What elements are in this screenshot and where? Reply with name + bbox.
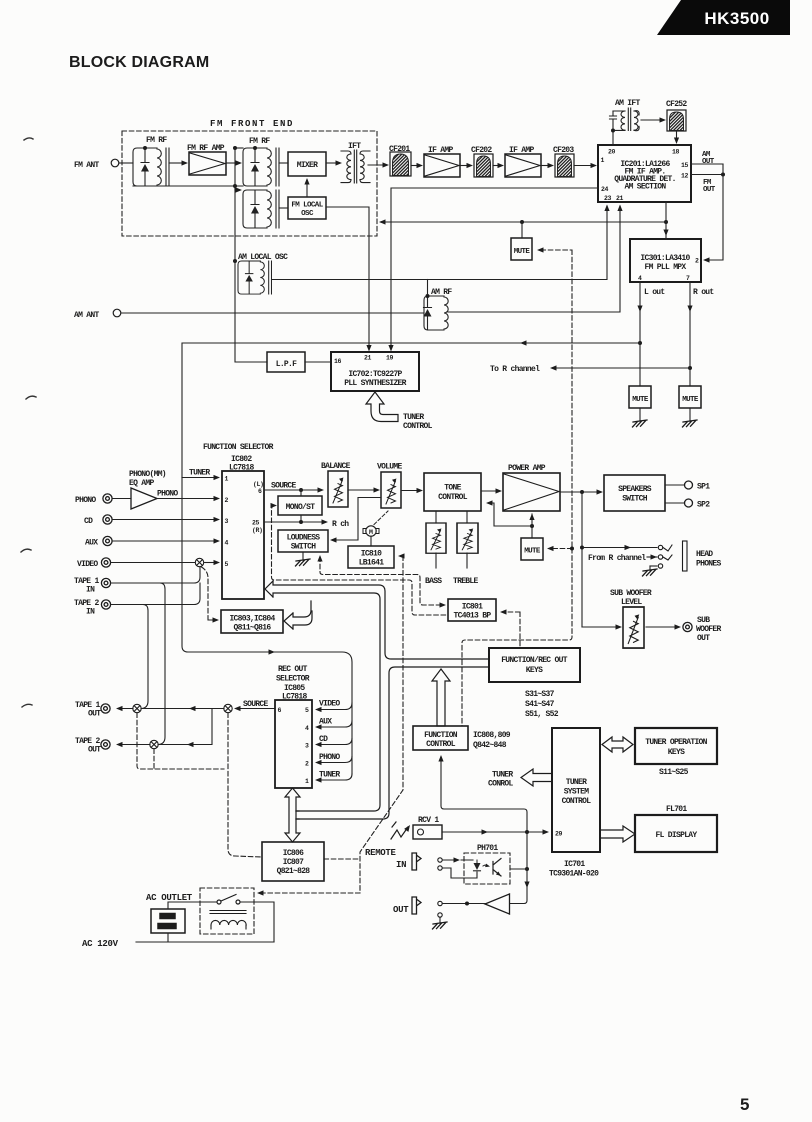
binding margin mark 2 [26, 396, 36, 399]
wire AM local osc to IC201 pin23 [272, 206, 607, 280]
wire IFT to CF201 [368, 164, 383, 166]
tape1 out switch node [133, 704, 141, 712]
wire opto out to bus [510, 868, 527, 870]
svg-text:IC801: IC801 [462, 603, 483, 612]
TONE CONTROL box [424, 473, 481, 511]
svg-text:FM ANT: FM ANT [74, 161, 100, 170]
wire 2nd tank to MIXER [279, 162, 288, 164]
dashed control into FM mute [541, 250, 572, 549]
wire AUX jack to pin4 [113, 540, 215, 542]
IC805 rec out selector box [275, 700, 312, 788]
svg-text:CD: CD [84, 517, 93, 526]
wire source line to tape1 node [141, 708, 224, 710]
svg-text:IC806: IC806 [283, 849, 304, 858]
svg-text:IC803,IC804: IC803,IC804 [229, 615, 275, 624]
BASS pot [426, 523, 446, 553]
wire FM LOCAL OSC to IC702 pin21 [326, 207, 369, 346]
svg-text:TREBLE: TREBLE [453, 577, 479, 586]
wire node to tape2 out [118, 744, 150, 746]
svg-text:M: M [369, 529, 373, 536]
MUTE (L) box [629, 386, 651, 408]
svg-text:Q821~828: Q821~828 [277, 867, 311, 876]
svg-text:2: 2 [225, 497, 229, 504]
svg-text:Q811~Q816: Q811~Q816 [234, 624, 272, 633]
wire AM/FM OUT down to IC301 pin2 [707, 164, 723, 260]
svg-text:21: 21 [364, 355, 372, 362]
svg-text:OUT: OUT [702, 158, 715, 166]
wire IC301 L out to mute [639, 282, 641, 386]
svg-text:TC9301AN-020: TC9301AN-020 [549, 870, 599, 879]
svg-text:4: 4 [225, 540, 229, 547]
motor M for volume [363, 526, 379, 536]
svg-text:FUNCTION/REC OUT: FUNCTION/REC OUT [501, 656, 568, 665]
headphone jack contacts [658, 541, 687, 571]
svg-text:OUT: OUT [697, 634, 710, 643]
remote IN jack [412, 853, 442, 870]
MIXER [288, 152, 326, 176]
LED inside PH701 [476, 860, 478, 863]
wire FM LOCAL OSC to MIXER [306, 180, 308, 197]
svg-text:Q842~848: Q842~848 [473, 741, 507, 750]
MUTE (R) box [679, 386, 701, 408]
phototransistor inside PH701 [493, 859, 501, 877]
svg-text:BLOCK DIAGRAM: BLOCK DIAGRAM [69, 54, 209, 71]
wire IC201 pin12 FM OUT [691, 174, 723, 176]
svg-text:CONTROL: CONTROL [438, 493, 468, 502]
wire TAPE1 IN to node [111, 567, 200, 583]
svg-text:SUB: SUB [697, 616, 710, 625]
svg-text:MUTE: MUTE [632, 396, 649, 404]
dashed mute bus down to function control [462, 549, 572, 727]
wire tuning line stub at top of 2nd tank [235, 147, 243, 149]
svg-text:MUTE: MUTE [514, 248, 531, 256]
svg-text:FUNCTION: FUNCTION [424, 731, 458, 740]
svg-text:IN: IN [86, 608, 95, 617]
wire FM RF tank to FM RF AMP [169, 162, 182, 164]
wire TAPE1 IN branch down to tape2 out node [159, 583, 166, 745]
svg-text:S11~S25: S11~S25 [659, 768, 689, 777]
wire rec out pin6 to source node [236, 708, 275, 710]
dashed motor link to volume [374, 511, 388, 525]
wire tone control to power amp [481, 490, 496, 492]
wire AM RF out to IC201 pin21 [448, 206, 620, 312]
svg-text:IC807: IC807 [283, 858, 304, 867]
svg-text:2: 2 [305, 761, 309, 768]
svg-text:19: 19 [386, 355, 394, 362]
wire power amp out down to headphones / subwoofer [581, 492, 583, 627]
wire TAPE2 IN to node [111, 583, 200, 605]
svg-text:TUNER: TUNER [189, 469, 210, 478]
wire R out to R channel [552, 367, 690, 369]
double fat arrow IC805 to IC806 [285, 788, 300, 842]
IC810 LB1641 box [348, 546, 394, 568]
svg-text:FL701: FL701 [666, 805, 687, 814]
wire MONO/ST to R ch line [300, 515, 302, 522]
relay dashed box [200, 888, 254, 934]
wire IF AMP2 to CF203 [541, 165, 548, 167]
wire relay switch to AC line [240, 902, 274, 942]
wire bus down to out amp [510, 832, 527, 904]
wire junction down to FM mute [521, 222, 523, 238]
wire FM RF AMP to 2nd FM RF tank [226, 162, 236, 164]
wire motor to IC810 [370, 537, 372, 547]
keys bus line 2 [296, 667, 489, 819]
wire IN tip to opto LED [443, 859, 474, 861]
svg-text:MUTE: MUTE [524, 548, 541, 556]
wire L out to tuner bus (left) [182, 343, 640, 477]
svg-text:PH701: PH701 [477, 844, 498, 853]
wire node to pin5 [204, 562, 214, 564]
svg-text:R out: R out [693, 288, 714, 297]
wires rec keys bus to fat arrow [296, 811, 299, 819]
svg-text:25: 25 [252, 520, 260, 527]
fat arrow function control to keys bus [432, 669, 450, 726]
wire AM IFT to IC201 pin20 [612, 131, 614, 145]
dashed control from video node to IC803 [202, 567, 216, 620]
wire node to tape1 out [118, 708, 133, 710]
IR beam symbol [391, 822, 408, 839]
svg-text:LEVEL: LEVEL [621, 598, 642, 607]
svg-text:16: 16 [334, 358, 342, 365]
svg-text:SELECTOR: SELECTOR [276, 675, 310, 684]
binding margin mark 4 [22, 704, 32, 707]
svg-text:PHONO(MM): PHONO(MM) [129, 470, 166, 479]
TREBLE pot [457, 523, 478, 553]
svg-text:MUTE: MUTE [682, 396, 699, 404]
svg-text:L.P.F: L.P.F [276, 360, 297, 369]
svg-text:FM PLL MPX: FM PLL MPX [644, 263, 686, 272]
AC 120V wire [136, 933, 274, 942]
IC301 LA3410 box [630, 239, 701, 282]
svg-text:24: 24 [601, 186, 609, 193]
svg-text:SYSTEM: SYSTEM [564, 788, 590, 797]
svg-text:1: 1 [305, 778, 309, 785]
svg-text:20: 20 [608, 149, 616, 156]
fat control arrow into IC803 [284, 601, 312, 629]
svg-text:5: 5 [225, 561, 229, 568]
IC201 LA1266 box [598, 145, 691, 202]
svg-text:FM LOCAL: FM LOCAL [291, 202, 323, 210]
svg-text:HK3500: HK3500 [704, 9, 769, 28]
svg-text:LB1641: LB1641 [359, 559, 385, 568]
wire FM ANT to FM RF tank [119, 162, 133, 164]
LOUDNESS SWITCH box [278, 530, 328, 552]
AC outlet socket [151, 909, 185, 933]
svg-text:VIDEO: VIDEO [319, 700, 340, 709]
svg-text:R ch: R ch [332, 520, 349, 529]
ground below MUTE L [639, 408, 641, 421]
svg-text:EQ AMP: EQ AMP [129, 479, 155, 488]
svg-text:AM IFT: AM IFT [615, 99, 641, 108]
dashed loudness control bus [320, 557, 444, 605]
svg-text:TUNER: TUNER [319, 771, 340, 780]
wire tone control to BASS pot [435, 511, 437, 523]
svg-text:SPEAKERS: SPEAKERS [618, 485, 652, 494]
SPEAKERS SWITCH box [604, 475, 665, 511]
svg-text:OUT: OUT [88, 746, 101, 755]
svg-text:6: 6 [278, 707, 282, 714]
svg-text:29: 29 [555, 831, 563, 838]
binding margin mark 1 [24, 138, 33, 140]
dashed tape-switch control bus [137, 713, 262, 857]
svg-text:6: 6 [258, 488, 262, 495]
svg-text:18: 18 [672, 149, 680, 156]
remote OUT jack [412, 897, 442, 917]
svg-text:SOURCE: SOURCE [271, 482, 297, 491]
svg-text:WOOFER: WOOFER [696, 625, 722, 634]
wire AM RF varactor to tuning line [427, 280, 429, 297]
svg-text:TUNER: TUNER [566, 778, 587, 787]
double fat arrow TSC to tuner operation keys [602, 737, 633, 752]
svg-text:IC701: IC701 [564, 860, 585, 869]
source switch node [224, 704, 232, 712]
FM FRONT END dashed enclosure [122, 131, 377, 236]
svg-text:15: 15 [681, 162, 689, 169]
IC801 TC4013 box [448, 599, 496, 621]
wire local osc tank to FM LOCAL OSC [279, 207, 288, 209]
wire outlet to relay switch [168, 902, 217, 909]
svg-text:SP2: SP2 [697, 501, 710, 510]
svg-text:PHONES: PHONES [696, 560, 722, 569]
svg-text:(R): (R) [252, 527, 263, 534]
svg-text:SOURCE: SOURCE [243, 700, 269, 709]
wire IC201 AFC out down to junction [665, 202, 667, 239]
svg-text:SP1: SP1 [697, 483, 710, 492]
wire mute to power amp [531, 514, 533, 538]
svg-text:TC4013 BP: TC4013 BP [454, 612, 492, 621]
svg-text:IC808,809: IC808,809 [473, 731, 511, 740]
svg-text:5: 5 [740, 1095, 749, 1114]
wire tone control to TREBLE pot [466, 511, 468, 523]
L.P.F box [267, 352, 305, 372]
tuned circuit AM local osc [238, 261, 271, 294]
svg-text:IN: IN [396, 860, 406, 870]
svg-text:21: 21 [616, 195, 624, 202]
relay coil [210, 911, 246, 914]
wire rcv line up to function control [441, 757, 527, 832]
wire EQ amp to pin2 [157, 498, 214, 500]
MUTE (power amp) box [521, 538, 543, 560]
svg-text:FM RF: FM RF [249, 137, 270, 146]
svg-text:(L): (L) [253, 481, 264, 488]
svg-text:CF252: CF252 [666, 100, 687, 109]
svg-text:1: 1 [601, 157, 605, 164]
svg-text:CONTROL: CONTROL [426, 740, 456, 749]
FM LOCAL OSC box [288, 197, 326, 219]
wire to subwoofer pot [582, 626, 616, 628]
wire volume to tone control [401, 490, 417, 492]
wire power amp output to speakers switch [560, 491, 597, 493]
svg-text:BASS: BASS [425, 577, 442, 586]
dashed control into power amp mute [549, 548, 572, 550]
svg-text:IC301:LA3410: IC301:LA3410 [640, 254, 690, 263]
FL DISPLAY box [635, 815, 717, 852]
wire CF203 to IC201 pin1 [574, 165, 591, 167]
svg-text:PHONO: PHONO [319, 753, 340, 762]
wire tuning bus from front end down to L.P.F [235, 148, 267, 362]
feedback wire power amp to tone control [488, 503, 532, 526]
IC806 IC807 box [262, 842, 324, 881]
wire pot to sub out [646, 626, 676, 628]
svg-text:BALANCE: BALANCE [321, 462, 351, 471]
wire CF252 to IC201 pin18 [676, 131, 678, 138]
svg-text:5: 5 [305, 707, 309, 714]
wire IC201 pin24 to IC702 pin19 [391, 188, 598, 346]
wire balance to volume [348, 489, 374, 491]
ground to headphone sleeve [650, 565, 657, 567]
wire CD jack to pin3 [113, 519, 215, 521]
wire source node to MONO/ST [300, 490, 302, 496]
svg-text:PLL SYNTHESIZER: PLL SYNTHESIZER [344, 379, 406, 388]
svg-text:SWITCH: SWITCH [622, 495, 648, 504]
fat arrow TSC to FL display [600, 826, 635, 842]
svg-text:CONTROL: CONTROL [403, 422, 433, 431]
svg-text:CONROL: CONROL [488, 780, 514, 789]
svg-text:23: 23 [604, 195, 612, 202]
remote out amp [485, 894, 510, 914]
binding margin mark 3 [21, 549, 31, 552]
wire to headphone tip [582, 547, 657, 549]
SUB WOOFER OUT jack [683, 622, 692, 631]
wire bottom bus of front end (1st tank bottom to local osc tank) [133, 186, 243, 190]
tuned circuit AM RF [424, 296, 449, 330]
MONO/ST box [278, 496, 322, 515]
svg-text:S51, S52: S51, S52 [525, 710, 559, 719]
svg-text:CONTROL: CONTROL [562, 797, 592, 806]
wire AM IFT to CF252 [641, 119, 660, 121]
svg-text:OUT: OUT [88, 710, 101, 719]
fat arrow TUNER CONROL out of TSC [521, 769, 552, 786]
TUNER CONTROL fat arrow into IC702 [366, 392, 398, 422]
wire video source down right side [182, 478, 352, 775]
dashed control keys bus to IC801 [502, 612, 520, 648]
svg-text:OUT: OUT [703, 186, 716, 194]
svg-text:AUX: AUX [85, 539, 98, 548]
ground below MUTE R [689, 408, 691, 421]
ground below loudness switch [302, 552, 304, 560]
svg-text:RCV 1: RCV 1 [418, 816, 439, 825]
wire MIXER to IFT [326, 162, 337, 164]
svg-text:IN: IN [86, 586, 95, 595]
wire CF202 to IF AMP2 [493, 165, 498, 167]
tuned circuit FM local osc tank [243, 190, 279, 228]
tape2 out switch node [150, 740, 158, 748]
svg-text:AC 120V: AC 120V [82, 939, 119, 949]
svg-text:LOUDNESS: LOUDNESS [287, 534, 321, 543]
wire pin25 R channel out [264, 521, 322, 523]
svg-text:REMOTE: REMOTE [365, 848, 397, 858]
svg-text:3: 3 [225, 518, 229, 525]
wire source branch to tape2 node [158, 709, 212, 745]
svg-text:HEAD: HEAD [696, 550, 713, 559]
SP2 terminal [665, 502, 684, 504]
FUNCTION/REC OUT KEYS box [489, 648, 580, 682]
wire IC201 pin15 AM OUT [691, 163, 723, 165]
wire L.P.F to IC702 pin16 [305, 361, 331, 363]
svg-text:VOLUME: VOLUME [377, 463, 403, 472]
svg-text:OUT: OUT [393, 905, 409, 915]
svg-text:2: 2 [695, 258, 699, 265]
dashed IC810 control [262, 556, 403, 893]
wire CF201 to IF AMP1 [411, 165, 417, 167]
svg-text:SUB WOOFER: SUB WOOFER [610, 589, 652, 598]
relay switch [217, 895, 240, 905]
svg-text:CF201: CF201 [389, 145, 410, 154]
svg-text:OSC: OSC [301, 210, 314, 218]
svg-text:TUNER: TUNER [492, 771, 513, 780]
IC802 function selector box [222, 471, 264, 599]
svg-text:FL DISPLAY: FL DISPLAY [655, 831, 697, 840]
SP1 terminal [665, 484, 684, 486]
svg-text:TONE: TONE [444, 484, 461, 493]
svg-text:From R channel: From R channel [588, 554, 646, 563]
HK3500 model banner [657, 0, 790, 35]
svg-text:VIDEO: VIDEO [77, 560, 98, 569]
wire AM ANT to AM RF tank [121, 312, 424, 314]
svg-text:TUNER: TUNER [403, 413, 424, 422]
svg-text:SWITCH: SWITCH [291, 543, 317, 552]
svg-text:KEYS: KEYS [526, 666, 543, 675]
wire RCV1 to tuner system control pin29 [442, 831, 546, 833]
ground at OUT sleeve [439, 917, 441, 922]
wire volume tap to loudness switch [334, 498, 381, 541]
svg-text:REC OUT: REC OUT [278, 665, 308, 674]
svg-text:FM RF: FM RF [146, 136, 167, 145]
svg-text:PHONO: PHONO [75, 496, 96, 505]
IC702 TC9227P box [331, 352, 419, 391]
svg-text:PHONO: PHONO [157, 490, 178, 499]
dashed control from MONO/ST to IC801 [272, 506, 447, 616]
wire IF AMP1 to CF202 [460, 165, 467, 167]
svg-text:7: 7 [686, 275, 690, 282]
svg-text:S41~S47: S41~S47 [525, 700, 555, 709]
wire IN sleeve return loop [443, 868, 478, 878]
svg-text:MIXER: MIXER [297, 161, 318, 170]
switch node (video/tape) [195, 558, 203, 566]
svg-text:1: 1 [225, 476, 229, 483]
svg-text:AM ANT: AM ANT [74, 311, 100, 320]
fat control arrow into IC802 [265, 581, 489, 811]
wire pin6 source out to balance [264, 489, 318, 491]
wire PHONO jack to EQ amp [113, 498, 132, 500]
svg-text:FUNCTION SELECTOR: FUNCTION SELECTOR [203, 443, 274, 452]
svg-text:POWER AMP: POWER AMP [508, 464, 546, 473]
svg-text:4: 4 [638, 275, 642, 282]
svg-text:KEYS: KEYS [668, 748, 685, 757]
wire AFC line to FM front end [382, 221, 666, 223]
wire VIDEO jack to switch node [111, 562, 195, 564]
svg-text:IC702:TC9227P: IC702:TC9227P [348, 370, 402, 379]
svg-text:L out: L out [644, 288, 665, 297]
svg-text:12: 12 [681, 173, 689, 180]
IC803 IC804 box [221, 610, 283, 633]
svg-text:3: 3 [305, 743, 309, 750]
light coupling squiggle [483, 865, 488, 866]
svg-text:IC810: IC810 [361, 550, 382, 559]
svg-text:FM FRONT END: FM FRONT END [210, 119, 294, 129]
wire IC301 R out to mute [689, 282, 691, 386]
svg-text:4: 4 [305, 725, 309, 732]
wire amp to OUT tip [443, 903, 486, 905]
svg-text:To R channel: To R channel [490, 365, 540, 374]
svg-text:AM SECTION: AM SECTION [624, 183, 666, 192]
MUTE (FM) box [511, 238, 532, 260]
TUNER SYSTEM CONTROL box [552, 728, 600, 852]
wire TAPE2 IN branch down to tape1 out node [142, 605, 149, 709]
TUNER OPERATION KEYS box [635, 728, 717, 764]
svg-text:MONO/ST: MONO/ST [286, 503, 316, 512]
svg-text:S31~S37: S31~S37 [525, 690, 555, 699]
